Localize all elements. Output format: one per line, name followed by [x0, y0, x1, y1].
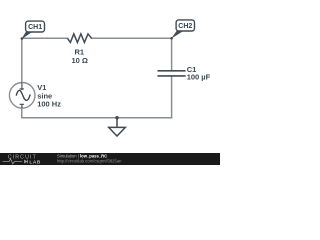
svg-text:100 µF: 100 µF [187, 73, 211, 82]
svg-text:CH2: CH2 [178, 23, 192, 30]
svg-text:http://circuitlab.com/csqmvf38: http://circuitlab.com/csqmvf3825an [57, 158, 122, 163]
svg-text:100 Hz: 100 Hz [37, 100, 61, 109]
svg-text:10 Ω: 10 Ω [71, 56, 87, 65]
svg-text:CH1: CH1 [28, 24, 42, 31]
svg-text:LAB: LAB [29, 159, 41, 165]
